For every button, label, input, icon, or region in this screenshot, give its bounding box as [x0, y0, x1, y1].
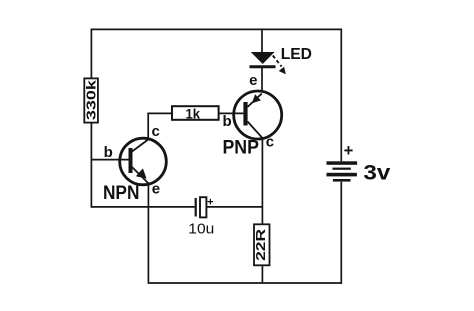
- svg-text:PNP: PNP: [222, 138, 259, 159]
- svg-text:NPN: NPN: [103, 183, 140, 204]
- svg-text:e: e: [249, 72, 257, 89]
- svg-text:3v: 3v: [363, 160, 390, 184]
- svg-text:LED: LED: [281, 46, 312, 63]
- svg-text:22R: 22R: [254, 229, 268, 261]
- svg-text:c: c: [152, 123, 160, 140]
- svg-text:e: e: [152, 180, 160, 197]
- svg-text:+: +: [344, 142, 354, 160]
- svg-text:c: c: [266, 133, 274, 150]
- svg-text:b: b: [223, 113, 232, 130]
- svg-text:10u: 10u: [188, 221, 214, 238]
- svg-text:1k: 1k: [186, 106, 201, 121]
- svg-text:b: b: [104, 144, 113, 161]
- svg-text:330k: 330k: [84, 79, 99, 120]
- svg-text:+: +: [207, 197, 213, 209]
